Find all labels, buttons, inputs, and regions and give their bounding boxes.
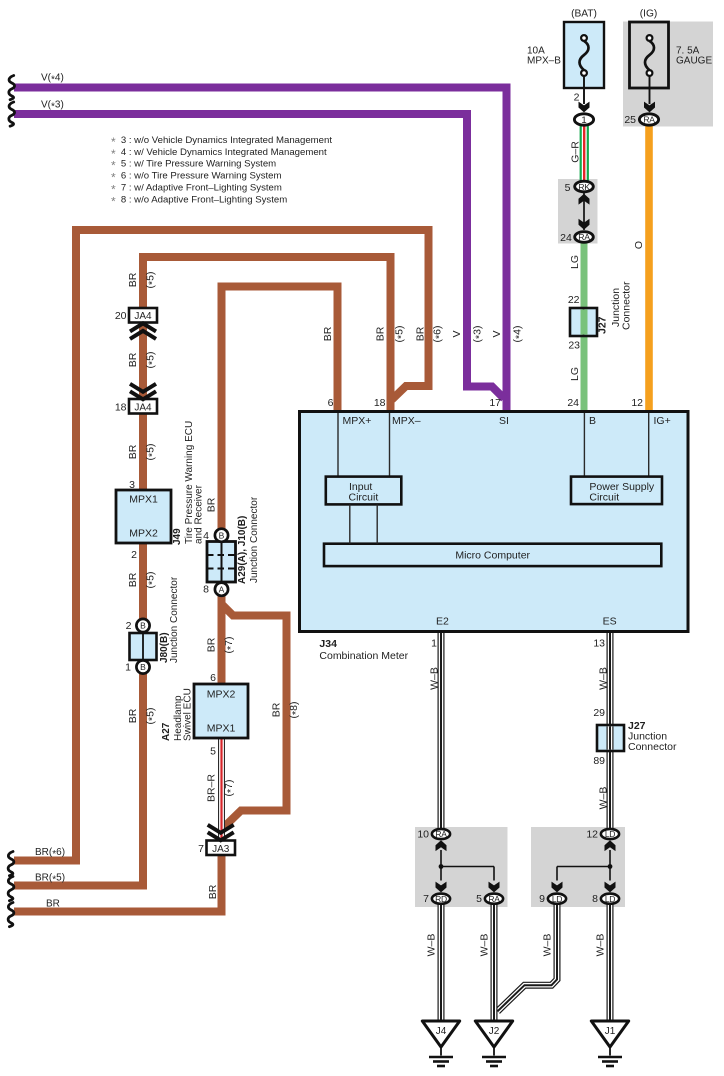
wire W-B from LD8 to ground J1 [607, 904, 614, 1022]
wire O orange from RA25 to J34 pin IG+ [645, 126, 653, 412]
svg-text:22: 22 [568, 294, 580, 306]
svg-text:V: V [451, 330, 463, 337]
break squiggle BR(*5) [8, 877, 14, 901]
power supply circuit box [571, 477, 662, 505]
arrows into JA4 pin 18 [130, 384, 156, 400]
svg-text:IG+: IG+ [654, 415, 671, 427]
wire W-B from ES pin 13 to LD12 [607, 632, 614, 829]
svg-text:J4: J4 [436, 1026, 447, 1037]
wire W-B from RA5 to ground J2 [491, 904, 498, 1022]
svg-text:GAUGE: GAUGE [676, 56, 712, 67]
shield box around RK / RA24 connectors [558, 179, 598, 244]
junction connector J27 (22/23) [570, 308, 597, 336]
connector B circle pin 2 of J80 [136, 619, 149, 632]
svg-text:Combination Meter: Combination Meter [319, 650, 408, 662]
svg-text:1: 1 [581, 115, 586, 126]
arrows into JA4 pin 20 [130, 323, 156, 339]
svg-text:29: 29 [593, 707, 605, 719]
svg-text:23: 23 [568, 340, 580, 352]
svg-text:MPX1: MPX1 [129, 494, 158, 506]
svg-text:4: 4 [203, 530, 209, 542]
svg-text:O: O [633, 241, 645, 249]
connector LD12 oval [601, 829, 619, 839]
junction connector J80(B) box [130, 633, 157, 660]
svg-text:BR: BR [207, 884, 219, 899]
svg-text:Junction Connector: Junction Connector [169, 576, 180, 663]
svg-text:J27: J27 [597, 316, 609, 334]
svg-text:W–B: W–B [598, 667, 610, 690]
micro computer box [324, 544, 661, 566]
wire W-B from LD9 merging toward J2 [498, 904, 558, 1011]
break squiggle V(*4) [9, 76, 15, 100]
wire LG from RA24 to J34 pin B [581, 242, 588, 412]
svg-text:BR: BR [322, 326, 334, 341]
svg-text:BR: BR [415, 326, 427, 341]
svg-text:(BAT): (BAT) [571, 9, 597, 20]
svg-text:7: 7 [423, 893, 429, 905]
wire W-B from E2 pin 1 to RA10 [438, 632, 445, 829]
svg-text:LD: LD [605, 829, 615, 839]
svg-text:MPX–: MPX– [392, 415, 421, 427]
svg-text:BR: BR [46, 899, 60, 910]
arrow below IG fuse [644, 102, 655, 113]
wire BR-R from A27 MPX1 pin 5 to JA3 [218, 738, 225, 841]
connector RA24 oval [575, 232, 594, 243]
svg-text:W–B: W–B [595, 934, 607, 957]
svg-text:Circuit: Circuit [589, 492, 619, 504]
connector A circle pin 8 of A29 [215, 583, 228, 596]
svg-text:B: B [219, 530, 225, 540]
junction connector A29(A),J10(B) box [207, 542, 236, 583]
junction block JA3 pin 7 [207, 841, 236, 856]
tire pressure warning ECU J49 box [116, 490, 171, 543]
connector RA25 oval [639, 114, 658, 125]
svg-text:MPX2: MPX2 [207, 689, 236, 701]
wire BR riser through A29 to top run into MPX+ pin 6 [222, 287, 338, 685]
connector LD8 oval [601, 894, 619, 904]
svg-text:BR: BR [127, 708, 139, 723]
svg-text:RA: RA [488, 894, 500, 904]
svg-text:RK: RK [578, 182, 590, 192]
pin line B [583, 413, 585, 477]
svg-text:24: 24 [567, 397, 579, 409]
svg-text:BR: BR [127, 572, 139, 587]
pin line IG+ [648, 413, 650, 477]
svg-text:Circuit: Circuit [349, 492, 379, 504]
svg-text:9: 9 [539, 893, 545, 905]
svg-text:RA: RA [435, 829, 447, 839]
connector RA5 oval [485, 894, 503, 904]
ground J4 [422, 1021, 459, 1066]
svg-text:W–B: W–B [426, 934, 438, 957]
svg-text:BR: BR [206, 497, 218, 512]
svg-text:V: V [491, 330, 503, 337]
svg-text:J49: J49 [172, 528, 183, 545]
shield box around RA10 / RD7 / RA5 connectors [415, 827, 508, 907]
BR (*5) labels along JA4/J49/J80 riser [127, 272, 159, 725]
svg-text:B: B [140, 621, 146, 631]
svg-text:Swivel ECU: Swivel ECU [183, 688, 194, 741]
wire BR(*5) left run, riser through JA4/J49/J80, top run into MPX- pin 18 [14, 257, 391, 886]
W-B labels [426, 667, 610, 956]
connector RK oval [575, 181, 594, 192]
svg-text:J2: J2 [489, 1026, 500, 1037]
connector RD7 oval [432, 894, 450, 904]
rotated wire labels row y334 [322, 326, 526, 343]
svg-text:G–R: G–R [570, 141, 582, 163]
svg-text:25: 25 [624, 114, 636, 126]
svg-text:LG: LG [569, 255, 581, 269]
junction connector J27 (29/89) [597, 725, 624, 751]
svg-text:J1: J1 [605, 1026, 616, 1037]
svg-text:10: 10 [417, 829, 429, 841]
svg-text:(IG): (IG) [640, 9, 658, 20]
ground J2 [475, 1021, 512, 1066]
BR labels along A29/A27 riser [206, 497, 238, 899]
svg-text:Connector: Connector [621, 281, 633, 330]
svg-text:MPX1: MPX1 [207, 723, 236, 735]
svg-text:18: 18 [374, 397, 386, 409]
svg-text:MPX+: MPX+ [343, 415, 372, 427]
svg-text:12: 12 [631, 397, 643, 409]
shield box around IG fuse and RA25 [623, 22, 713, 127]
svg-text:89: 89 [593, 755, 605, 767]
svg-text:A: A [219, 584, 225, 594]
svg-text:5: 5 [565, 182, 571, 194]
svg-text:MPX2: MPX2 [129, 528, 158, 540]
svg-text:2: 2 [126, 620, 132, 632]
svg-text:Micro Computer: Micro Computer [455, 550, 530, 562]
svg-text:5: 5 [476, 893, 482, 905]
wire V(*3) merging into SI wire [14, 114, 504, 399]
connector LD9 oval [548, 894, 566, 904]
pin line MPX+ [337, 413, 339, 477]
link RK to RA24 [583, 193, 585, 230]
svg-text:BR: BR [127, 272, 139, 287]
shield box around LD12 / LD9 / LD8 connectors [531, 827, 625, 907]
svg-text:A29(A), J10(B): A29(A), J10(B) [237, 516, 248, 584]
svg-text:8: 8 [203, 584, 209, 596]
wire BR(*8) branch loop to JA3 [222, 604, 287, 828]
svg-text:MPX–B: MPX–B [527, 56, 561, 67]
svg-text:BR: BR [127, 444, 139, 459]
connector 1 oval [574, 114, 593, 125]
svg-text:LD: LD [552, 894, 562, 904]
svg-text:A27: A27 [161, 722, 172, 741]
connector B circle pin 1 of J80 [136, 660, 149, 673]
svg-text:2: 2 [574, 92, 580, 104]
svg-text:JA4: JA4 [134, 311, 152, 322]
svg-text:17: 17 [489, 397, 501, 409]
svg-text:2: 2 [131, 549, 137, 561]
svg-text:W–B: W–B [598, 787, 610, 810]
svg-text:W–B: W–B [542, 934, 554, 957]
svg-text:BR: BR [127, 352, 139, 367]
svg-text:B: B [589, 415, 596, 427]
link input circuit to micro computer [349, 504, 351, 543]
svg-text:8: 8 [592, 893, 598, 905]
svg-text:SI: SI [499, 415, 509, 427]
svg-text:BR: BR [271, 702, 283, 717]
svg-text:1: 1 [431, 638, 437, 650]
wire LG crossing J27 box [581, 309, 588, 334]
svg-text:Junction Connector: Junction Connector [249, 496, 260, 583]
svg-text:W–B: W–B [479, 934, 491, 957]
svg-text:6: 6 [328, 397, 334, 409]
svg-text:W–B: W–B [429, 667, 441, 690]
fuse 7.5A GAUGE (IG) [630, 22, 669, 88]
svg-text:BR–R: BR–R [206, 774, 218, 802]
internal links of right shield box [557, 850, 610, 881]
ground J1 [591, 1021, 628, 1066]
connector B circle pin 4 of A29 [215, 529, 228, 542]
svg-text:5: 5 [210, 746, 216, 758]
pin line MPX- [389, 413, 391, 477]
junction block JA4 pin 20 [129, 308, 157, 323]
svg-text:RD: RD [435, 894, 447, 904]
svg-text:J34: J34 [319, 638, 337, 650]
svg-text:RA: RA [643, 115, 655, 125]
svg-text:20: 20 [115, 310, 127, 322]
junction block JA4 pin 18 [129, 399, 157, 414]
svg-text:E2: E2 [436, 616, 449, 628]
break squiggle BR(*6) [8, 852, 14, 876]
wire V(*4) to SI pin 17 [14, 88, 507, 413]
connector RA10 oval [432, 829, 450, 839]
svg-text:13: 13 [593, 638, 605, 650]
svg-text:JA3: JA3 [212, 844, 230, 855]
svg-text:B: B [140, 662, 146, 672]
svg-text:Connector: Connector [628, 741, 677, 753]
svg-text:12: 12 [586, 829, 598, 841]
svg-text:LD: LD [605, 894, 615, 904]
svg-text:7: 7 [198, 843, 204, 855]
internal links of left shield box [441, 850, 494, 881]
svg-text:24: 24 [560, 232, 572, 244]
headlamp swivel ECU A27 box [194, 684, 248, 738]
arrows into JA3 pin 7 [208, 825, 234, 841]
break squiggle BR [8, 903, 14, 927]
fuse 10A MPX-B (BAT) [564, 22, 604, 88]
svg-text:6: 6 [210, 672, 216, 684]
svg-text:ES: ES [603, 616, 617, 628]
wire BR below JA3 to bottom left run [14, 853, 222, 912]
svg-text:3: 3 [129, 479, 135, 491]
svg-text:1: 1 [125, 662, 131, 674]
arrow below BAT fuse [579, 102, 590, 113]
svg-text:BR: BR [375, 326, 387, 341]
break squiggle V(*3) [9, 102, 15, 126]
svg-text:18: 18 [115, 401, 127, 413]
notes list [111, 135, 332, 209]
svg-text:BR: BR [206, 637, 218, 652]
svg-text:JA4: JA4 [134, 402, 152, 413]
svg-text:RA: RA [578, 232, 590, 242]
svg-text:LG: LG [569, 367, 581, 381]
wire W-B from RD7 to ground J4 [438, 904, 445, 1022]
wire G-R striped from connector 1 to RK [580, 125, 589, 182]
combination meter J34 box [300, 412, 689, 632]
input circuit box [326, 477, 402, 505]
wire W-B crossing J27 box [607, 726, 614, 749]
wire BR(*6) left to vertical riser to top run to (*6) drop into MPX- pin 18 [14, 230, 429, 861]
